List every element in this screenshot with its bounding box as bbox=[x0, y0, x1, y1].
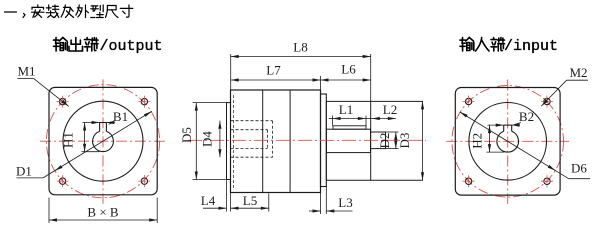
svg-text:L2: L2 bbox=[383, 102, 397, 117]
svg-text:D6: D6 bbox=[571, 161, 587, 176]
input flange centerlines (red) bbox=[446, 140, 569, 142]
input shaft stub bbox=[371, 132, 386, 149]
input flange bolt hole 4 bbox=[544, 178, 550, 184]
output flange shaft hole with keyway bbox=[93, 131, 114, 151]
svg-text:D4: D4 bbox=[200, 131, 215, 147]
svg-text:L1: L1 bbox=[339, 102, 353, 117]
svg-text:B2: B2 bbox=[519, 109, 534, 124]
svg-text:D5: D5 bbox=[179, 127, 194, 143]
svg-text:H2: H2 bbox=[470, 133, 485, 149]
hidden bolt line near output face (dashed) bbox=[233, 95, 235, 188]
svg-text:B × B: B × B bbox=[87, 205, 119, 220]
output pilot boss (left face) bbox=[227, 103, 231, 180]
svg-text:L5: L5 bbox=[243, 193, 257, 208]
input flange shaft hole with keyway bbox=[497, 131, 519, 152]
svg-text:D1: D1 bbox=[16, 164, 32, 179]
main red centerline of section view bbox=[188, 139, 426, 141]
input flange plate bbox=[321, 94, 327, 187]
body internal joint lines bbox=[262, 90, 264, 193]
D2 extension lines bbox=[386, 131, 399, 133]
key strip on collar bbox=[333, 126, 366, 129]
svg-text:D3: D3 bbox=[397, 133, 412, 149]
output flange bolt hole 2 bbox=[141, 98, 147, 104]
svg-text:L3: L3 bbox=[338, 195, 352, 210]
svg-text:/output: /output bbox=[100, 38, 163, 55]
output flange centerlines (red) bbox=[40, 140, 166, 142]
gearbox body outline (section view) bbox=[231, 90, 321, 193]
svg-text:H1: H1 bbox=[61, 132, 76, 148]
title: 一，安装及外型尺寸 bbox=[5, 11, 17, 13]
output flange bolt circle (red) bbox=[46, 85, 159, 198]
output flange bolt hole 1 bbox=[59, 98, 65, 104]
input flange bolt hole 2 bbox=[544, 98, 550, 104]
svg-text:/input: /input bbox=[504, 38, 558, 55]
input clamp collar bbox=[327, 129, 371, 152]
input flange pilot circle bbox=[469, 103, 547, 181]
svg-text:L4: L4 bbox=[201, 193, 216, 208]
svg-text:L6: L6 bbox=[341, 62, 356, 77]
svg-text:L8: L8 bbox=[293, 40, 307, 55]
label: 输出端/output bbox=[54, 39, 59, 41]
input flange bolt circle (red) bbox=[452, 86, 564, 198]
input flange square outline bbox=[455, 88, 560, 196]
svg-text:M2: M2 bbox=[569, 65, 587, 80]
svg-text:B1: B1 bbox=[113, 109, 128, 124]
hidden output bore lines (dashed) bbox=[231, 120, 273, 122]
svg-text:D2: D2 bbox=[377, 133, 392, 149]
input flange bolt hole 1 bbox=[465, 98, 471, 104]
svg-text:M1: M1 bbox=[17, 64, 35, 79]
input bearing housing cylinder bbox=[326, 100, 423, 102]
output flange pilot circle bbox=[63, 101, 143, 181]
svg-text:L7: L7 bbox=[266, 63, 281, 78]
output flange bolt hole 4 bbox=[141, 178, 147, 184]
input flange bolt hole 3 bbox=[465, 178, 471, 184]
output flange bolt hole 3 bbox=[59, 178, 65, 184]
output flange square outline bbox=[49, 87, 157, 194]
